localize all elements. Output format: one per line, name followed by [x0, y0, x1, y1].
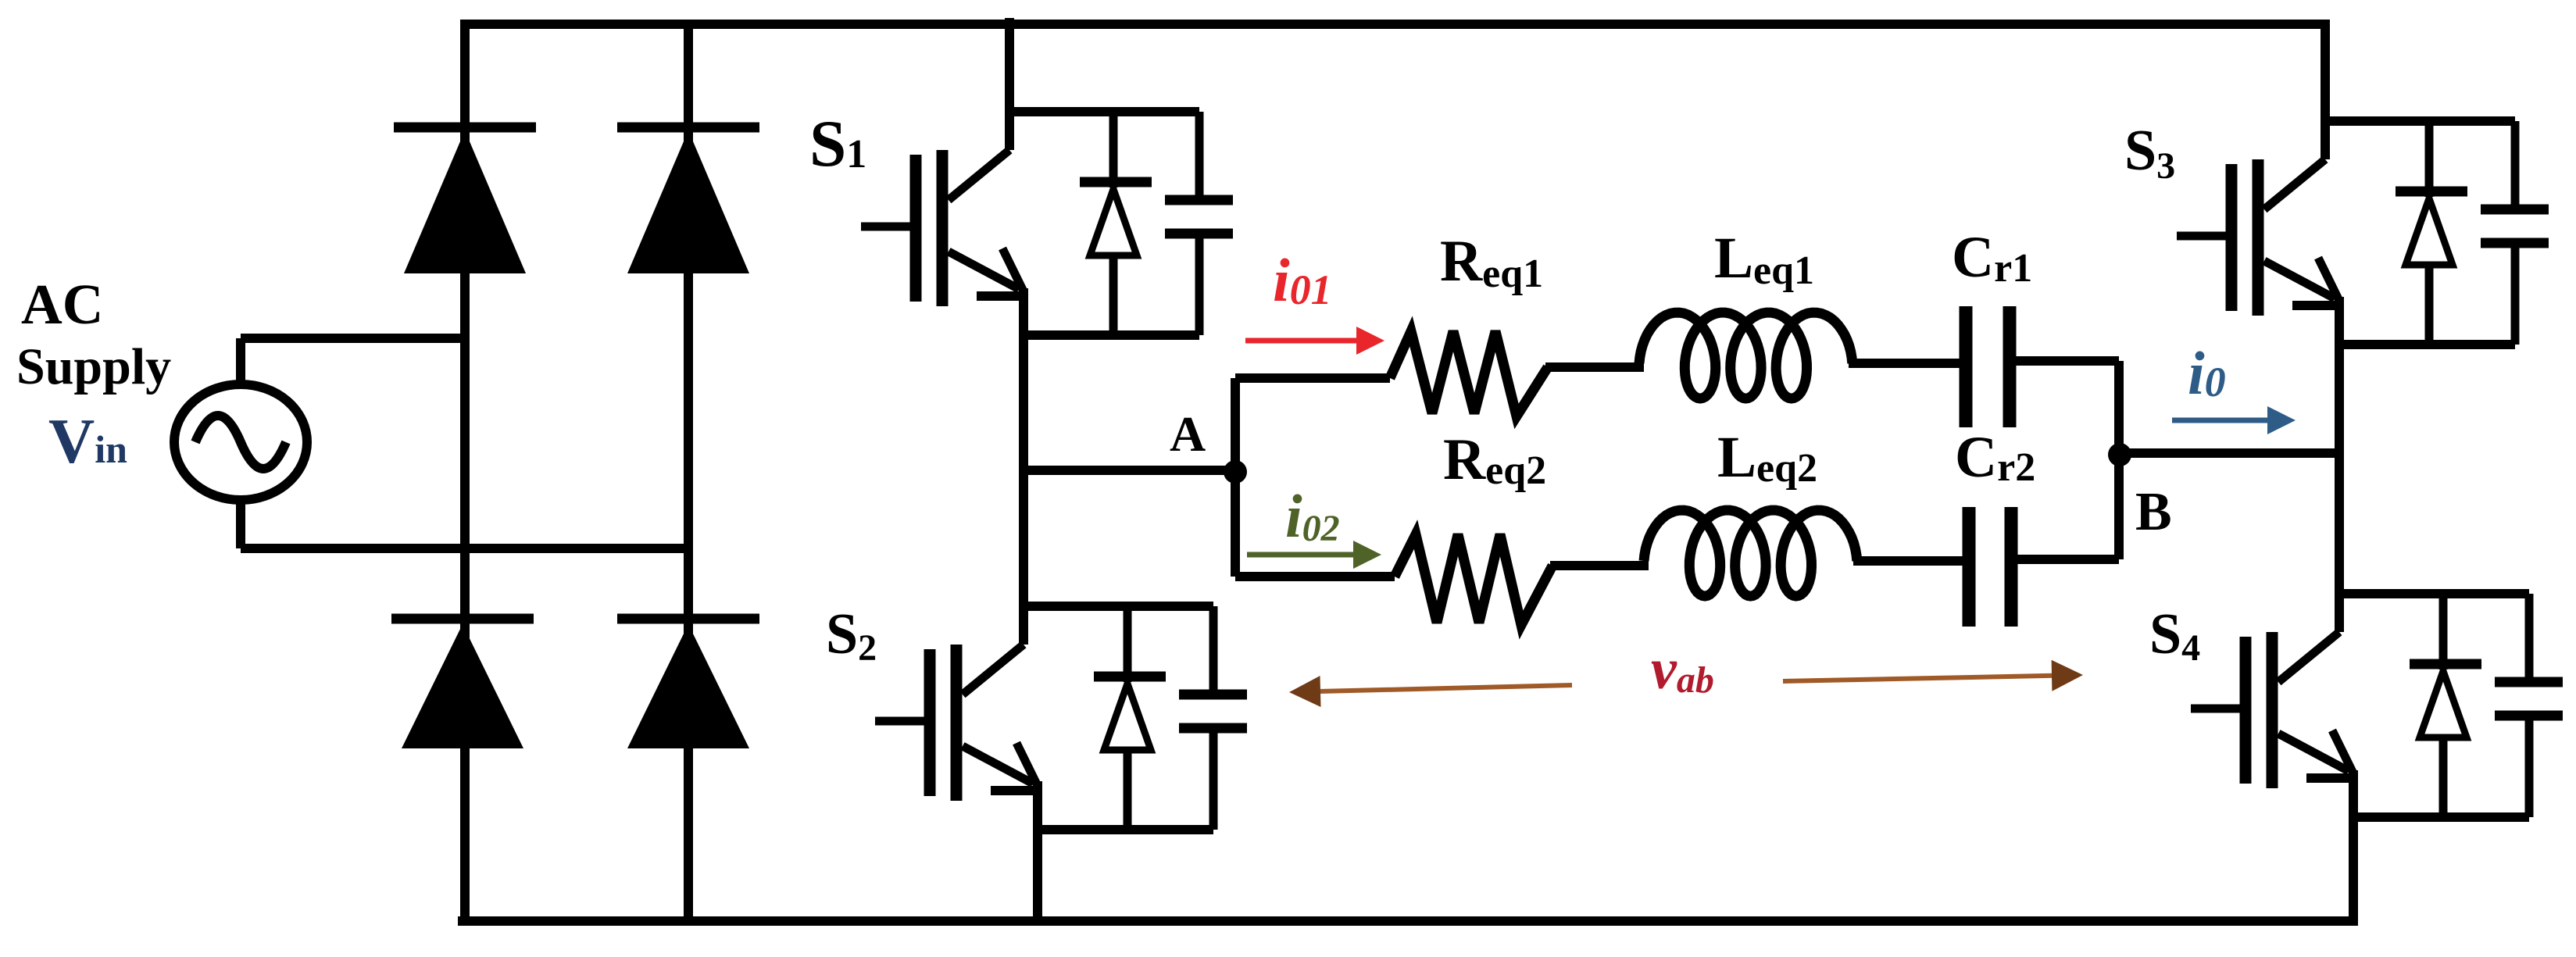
svg-text:Supply: Supply: [16, 338, 171, 395]
svg-text:AC: AC: [21, 273, 103, 336]
svg-text:B: B: [2135, 482, 2172, 542]
svg-text:A: A: [1170, 406, 1206, 462]
